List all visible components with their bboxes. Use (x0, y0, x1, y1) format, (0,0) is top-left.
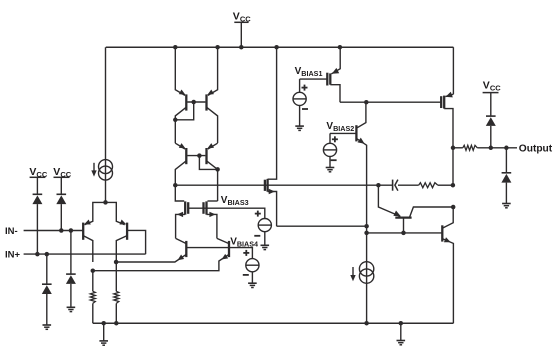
diode D4 (ground to IN-) (66, 274, 76, 284)
ground (VBIAS2) (326, 168, 335, 172)
wire: D1 to IN+ line (36, 204, 38, 254)
node: rail junction x175 (173, 45, 178, 50)
node: output / D5 junction (489, 146, 494, 151)
transistor Q9 (VBIAS2 NPN) (356, 102, 366, 226)
input IN- label (5, 226, 18, 237)
wire: node B to Q10/Q11 bases (367, 232, 443, 234)
wire: IN- to D4 (70, 231, 72, 275)
wire: VCC top rail (106, 46, 454, 48)
wire: IN- line (24, 230, 84, 232)
node: rail junction x218 (215, 45, 220, 50)
ground (below D4) (67, 307, 76, 311)
wire: VCC stem to D5 (490, 93, 492, 117)
wire: Q3-Q4 base link (187, 101, 205, 103)
wire: R2 bottom lead (115, 303, 117, 323)
ground (VBIAS1) (295, 126, 304, 130)
node: bottom rail / right ground (399, 321, 404, 326)
transistor Q11 (output NPN) (442, 207, 453, 323)
wire: IN+ line (24, 253, 146, 255)
ground (output clamp) (502, 204, 511, 208)
voltage source VBIAS2 (323, 143, 336, 156)
wire: VBIAS3 to ground (264, 232, 266, 246)
ground (below D3) (43, 325, 52, 329)
wire: VBIAS2 base line (330, 132, 356, 134)
svg-text:IN-: IN- (5, 226, 18, 237)
transistor M5 (output PMOS) (441, 92, 453, 185)
node: rail junction x276 (274, 45, 279, 50)
wire: rail right corner to M5 (452, 47, 454, 94)
wire: rail drop to M3 drain (268, 47, 277, 179)
wire: VBIAS1 to ground (299, 106, 301, 127)
node: IN- / D2 junction (59, 228, 64, 233)
wire: M1/M2 gate line to VBIAS3 (188, 208, 265, 218)
node: gate node junction (173, 183, 178, 188)
wire: output line left (453, 147, 463, 149)
resistor R2 (114, 291, 119, 303)
node: C1 branch / Q10 emitter junction (376, 183, 381, 188)
wire: VBIAS2 source drop (329, 133, 331, 143)
wire: VBIAS1 source drop (299, 79, 301, 92)
ground (bottom right) (397, 341, 406, 345)
minus sign (VBIAS3) (254, 235, 260, 237)
wire: base link to Q3 collector (175, 102, 193, 120)
node: Q3 collector junction (173, 118, 178, 123)
ground (bottom left) (99, 341, 108, 345)
label VBIAS3 (221, 195, 249, 207)
wire: IN+ to D3 (46, 254, 48, 284)
node: M4 drain / Q9 collector junction (364, 100, 369, 105)
node: Q5/Q6 base junction (197, 153, 202, 158)
wire: rail to Q4 emitter (208, 47, 218, 95)
capacitor C1 (compensation) (393, 180, 398, 191)
minus sign (VBIAS1) (302, 108, 308, 110)
wire: ground stem (bottom left) (103, 323, 105, 341)
minus sign (VBIAS2) (331, 159, 337, 161)
transistor Q5 (PNP cascode) (175, 143, 186, 185)
node: IN- / D4 junction (69, 228, 74, 233)
node: rail junction x340 (338, 45, 343, 50)
wire: R2 top lead (115, 262, 117, 291)
node: M3 source / VBIAS2 emitter junction (364, 224, 369, 229)
transistor M3 (second stage driver FET) (265, 179, 277, 226)
node: Q10 base / Q11 base junction (401, 231, 406, 236)
svg-text:IN+: IN+ (5, 250, 21, 261)
ground (VBIAS3) (261, 245, 270, 249)
power VCC (top) label (233, 11, 251, 24)
wire: Q3 col to Q5 emitter diag (175, 143, 185, 149)
voltage source VBIAS1 (293, 92, 306, 105)
wire: base link to Q6 collector (199, 156, 217, 170)
node: tail junction (103, 200, 108, 205)
transistor Q2 (PNP, IN+ input) (116, 220, 127, 263)
wire: D2 to IN- line (60, 204, 62, 230)
wire: M4 drain to M5 gate (340, 101, 441, 103)
transistor Q6 (PNP cascode, diode-connected) (207, 143, 218, 169)
wire: M2 top jog (208, 200, 218, 202)
diode D2 (IN- to VCC) (56, 194, 66, 204)
wire: VCC tick to rail (240, 22, 242, 47)
wire: bottom ground rail (93, 322, 454, 324)
transistor Q8 (right NPN) (93, 238, 229, 270)
wire: Q2 base loop (127, 230, 146, 254)
power VCC label (output clamp) (483, 80, 502, 93)
wire: VCC1 stem (36, 177, 38, 194)
node: node B lower junction (364, 231, 369, 236)
node: Q6 collector junction (215, 167, 220, 172)
transistor Q4 (PNP mirror) (207, 90, 218, 144)
plus sign (VBIAS3) (255, 211, 261, 217)
wire: VCC2 stem (60, 177, 62, 194)
voltage source VBIAS4 (246, 259, 259, 272)
current source I1 (input tail) (91, 160, 112, 181)
diode D5 (output to VCC) (486, 116, 496, 126)
wire: D4 to ground (70, 284, 72, 307)
node: Q1 collector / R1 junction (91, 268, 96, 273)
node: bottom rail / I2 (364, 321, 369, 326)
wire: R1 bottom lead (92, 303, 94, 323)
diode D6 (ground to output) (501, 173, 511, 183)
transistor M1 (left PMOS cascode) (176, 201, 189, 238)
current source I2 (output stage bias) (350, 262, 374, 284)
wire: R3 to output column (438, 184, 453, 186)
wire: comp node down to Q10 emitter (378, 185, 400, 216)
resistor R4 (output) (463, 145, 478, 150)
transistor Q1 (PNP, IN- input) (83, 220, 93, 263)
wire: Q3 collector down to Q5 (174, 120, 176, 143)
wire: gate node down to M1 (175, 185, 184, 201)
plus sign (VBIAS1) (302, 85, 308, 91)
node: rail junction x241 (239, 45, 244, 50)
wire: output to D6 (505, 148, 507, 173)
transistor Q10 (PNP, folded) (393, 207, 453, 233)
wire: rail left drop to tail source (105, 47, 107, 202)
wire: Q7-Q8 base line to VBIAS4 (186, 248, 252, 259)
transistor M4 (VBIAS1 PMOS) (327, 47, 340, 102)
wire: VBIAS4 to ground (251, 272, 253, 283)
wire: VBIAS2 to ground (329, 157, 331, 168)
label VBIAS1 (295, 66, 323, 78)
wire: C1 to R3 (398, 184, 419, 186)
wire: R1 top lead (92, 271, 94, 292)
wire: node B to I2 (366, 226, 368, 323)
output label (519, 143, 553, 154)
diode D3 (ground to IN+) (42, 284, 52, 294)
plus sign (VBIAS2) (332, 136, 338, 142)
wire: Q5-Q6 base link (187, 155, 205, 157)
wire: VBIAS1 gate line (300, 78, 328, 80)
resistor R3 (compensation) (419, 183, 438, 188)
input IN+ label (5, 250, 21, 261)
plus sign (VBIAS4) (243, 250, 249, 256)
wire: ground stem (bottom right) (400, 323, 402, 340)
node: output column / comp junction (451, 183, 456, 188)
minus sign (VBIAS4) (243, 274, 249, 276)
node: Q3/Q4 base junction (191, 100, 196, 105)
svg-text:Output: Output (519, 143, 553, 154)
node: M5 source / output junction (451, 146, 456, 151)
wire: tail to Q2 emitter (106, 202, 125, 224)
wire: output line right (477, 147, 517, 149)
node: IN+ / D1 junction (35, 252, 40, 257)
node: IN+ / D3 junction (45, 252, 50, 257)
transistor Q3 (PNP mirror, diode-connected) (175, 90, 186, 120)
power VCC label (input clamp 1) (29, 166, 47, 179)
transistor Q7 (left NPN) (116, 238, 186, 262)
wire: D6 to ground (505, 183, 507, 204)
resistor R1 (90, 291, 95, 303)
transistor M2 (right PMOS cascode) (204, 201, 217, 238)
wire: D5 to output line (490, 126, 492, 148)
node: bottom rail / ground stem (101, 321, 106, 326)
label VBIAS2 (326, 121, 354, 133)
node: Q10/Q11 collector junction (451, 205, 456, 210)
node: Q2 collector / R2 junction (114, 260, 119, 265)
wire: rail to Q3 emitter (175, 47, 185, 95)
wire: Q4 col to Q6 emitter diag (208, 143, 218, 149)
wire: D3 to ground (46, 294, 48, 325)
power VCC label (input clamp 2) (53, 166, 71, 179)
voltage source VBIAS3 (258, 219, 271, 232)
node: bottom rail / R2 (114, 321, 119, 326)
label VBIAS4 (230, 237, 258, 249)
diode D1 (IN+ to VCC) (32, 194, 42, 204)
wire: M3 source to node B (277, 225, 367, 227)
node: output / D6 junction (504, 146, 509, 151)
ground (VBIAS4) (248, 283, 257, 287)
wire: Q6 collector down to M2 (217, 169, 219, 201)
wire: gate node line (to M3 gate and C1) (175, 184, 392, 186)
wire: tail to Q1 emitter (85, 202, 106, 224)
